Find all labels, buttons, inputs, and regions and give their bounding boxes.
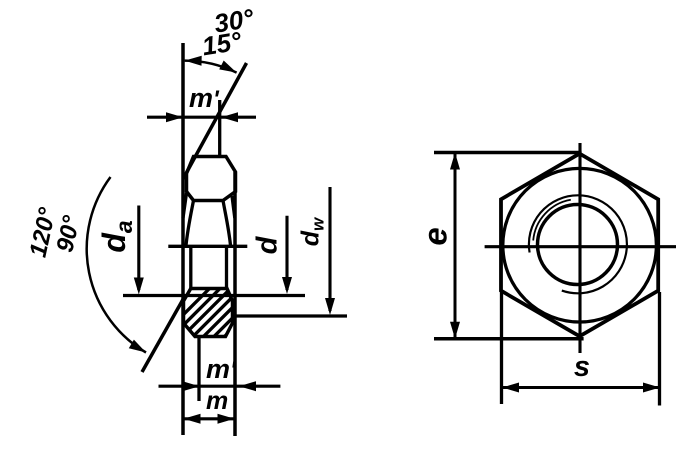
extension line e top bbox=[434, 151, 582, 155]
washer face line dw bbox=[235, 314, 347, 317]
svg-text:s: s bbox=[574, 351, 590, 383]
label m bbox=[206, 387, 228, 415]
svg-text:m': m' bbox=[189, 83, 220, 113]
thread arc (3/4 thin circle) bbox=[529, 195, 627, 293]
corner diagonal left bbox=[183, 193, 187, 218]
angle arc 30/15 with arrows bbox=[185, 56, 237, 73]
label 90deg bbox=[52, 213, 86, 255]
dimension e (vertical, arrows both ends) bbox=[450, 153, 460, 339]
dimension m' (top) bbox=[147, 112, 256, 122]
wire: long right vertical line (nut back face line) bbox=[233, 172, 237, 436]
bore line right bbox=[225, 246, 228, 288]
horizontal centerline bbox=[485, 245, 676, 248]
reference line d bbox=[168, 245, 247, 248]
svg-text:m: m bbox=[206, 387, 228, 415]
label 120deg bbox=[25, 205, 62, 260]
hexagon outline bbox=[501, 154, 658, 337]
label d_w bbox=[297, 216, 328, 246]
label 30deg bbox=[212, 3, 256, 39]
angle arc 120/90 with arrow bbox=[87, 177, 146, 353]
chamfer circle bbox=[503, 168, 657, 322]
label d bbox=[252, 235, 284, 254]
dimension m (bottom, double arrow) bbox=[184, 414, 235, 424]
corner diagonal right bbox=[232, 196, 235, 218]
extension line s right bbox=[658, 292, 661, 406]
label d_a bbox=[96, 220, 137, 253]
dimension m' (bottom) bbox=[159, 381, 281, 391]
nut flare curve left bbox=[186, 201, 194, 246]
bore line left bbox=[189, 246, 192, 288]
extension line e bottom bbox=[434, 337, 584, 341]
dimension s (horizontal, arrows both ends) bbox=[502, 383, 660, 393]
vertical centerline bbox=[578, 143, 581, 353]
wire: middle bottom vertical (washer face extension) bbox=[197, 337, 200, 402]
dimension arrow d_a bbox=[134, 206, 144, 295]
wire: short top vertical (chamfer edge extension) bbox=[218, 100, 221, 158]
label m' (top) bbox=[189, 83, 220, 113]
dimension arrow d_w bbox=[325, 187, 335, 315]
thread arc overlap stroke bbox=[533, 200, 571, 241]
chamfer gauge line 30/15 degrees bbox=[183, 63, 247, 179]
bore hole circle bbox=[538, 205, 618, 285]
nut silhouette upper octagon outline bbox=[187, 157, 236, 201]
label 15deg bbox=[200, 26, 244, 62]
label s bbox=[574, 351, 590, 383]
svg-text:d: d bbox=[252, 235, 284, 254]
label e bbox=[417, 227, 454, 245]
label m' (bottom) bbox=[206, 354, 237, 384]
svg-text:m': m' bbox=[206, 354, 237, 384]
extension line s left bbox=[500, 292, 503, 404]
svg-text:15°: 15° bbox=[200, 26, 244, 62]
countersink gauge line 120/90 degrees bbox=[142, 295, 186, 372]
bearing surface line bbox=[123, 294, 305, 297]
wire: long left vertical line (nut face line) bbox=[181, 43, 185, 435]
nut flare curve right bbox=[223, 201, 231, 246]
dimension arrow d bbox=[282, 216, 292, 294]
sectioned hex blank (hatched octagon) bbox=[152, 284, 298, 346]
svg-text:e: e bbox=[417, 227, 454, 245]
